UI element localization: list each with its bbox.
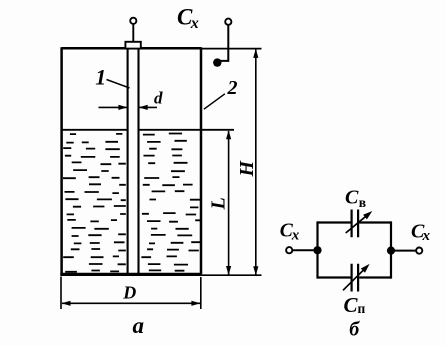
svg-text:C: C	[344, 293, 359, 317]
svg-text:C: C	[345, 187, 359, 209]
svg-text:в: в	[359, 195, 366, 210]
svg-text:б: б	[349, 319, 360, 341]
svg-text:п: п	[358, 301, 366, 316]
svg-text:L: L	[208, 197, 230, 210]
svg-text:x: x	[422, 228, 431, 244]
svg-text:x: x	[190, 15, 199, 32]
svg-text:d: d	[154, 89, 163, 108]
svg-text:a: a	[133, 313, 145, 338]
svg-text:H: H	[236, 160, 258, 178]
svg-text:1: 1	[95, 64, 106, 89]
svg-text:2: 2	[227, 77, 238, 99]
svg-text:D: D	[122, 282, 136, 302]
svg-text:x: x	[291, 228, 300, 244]
